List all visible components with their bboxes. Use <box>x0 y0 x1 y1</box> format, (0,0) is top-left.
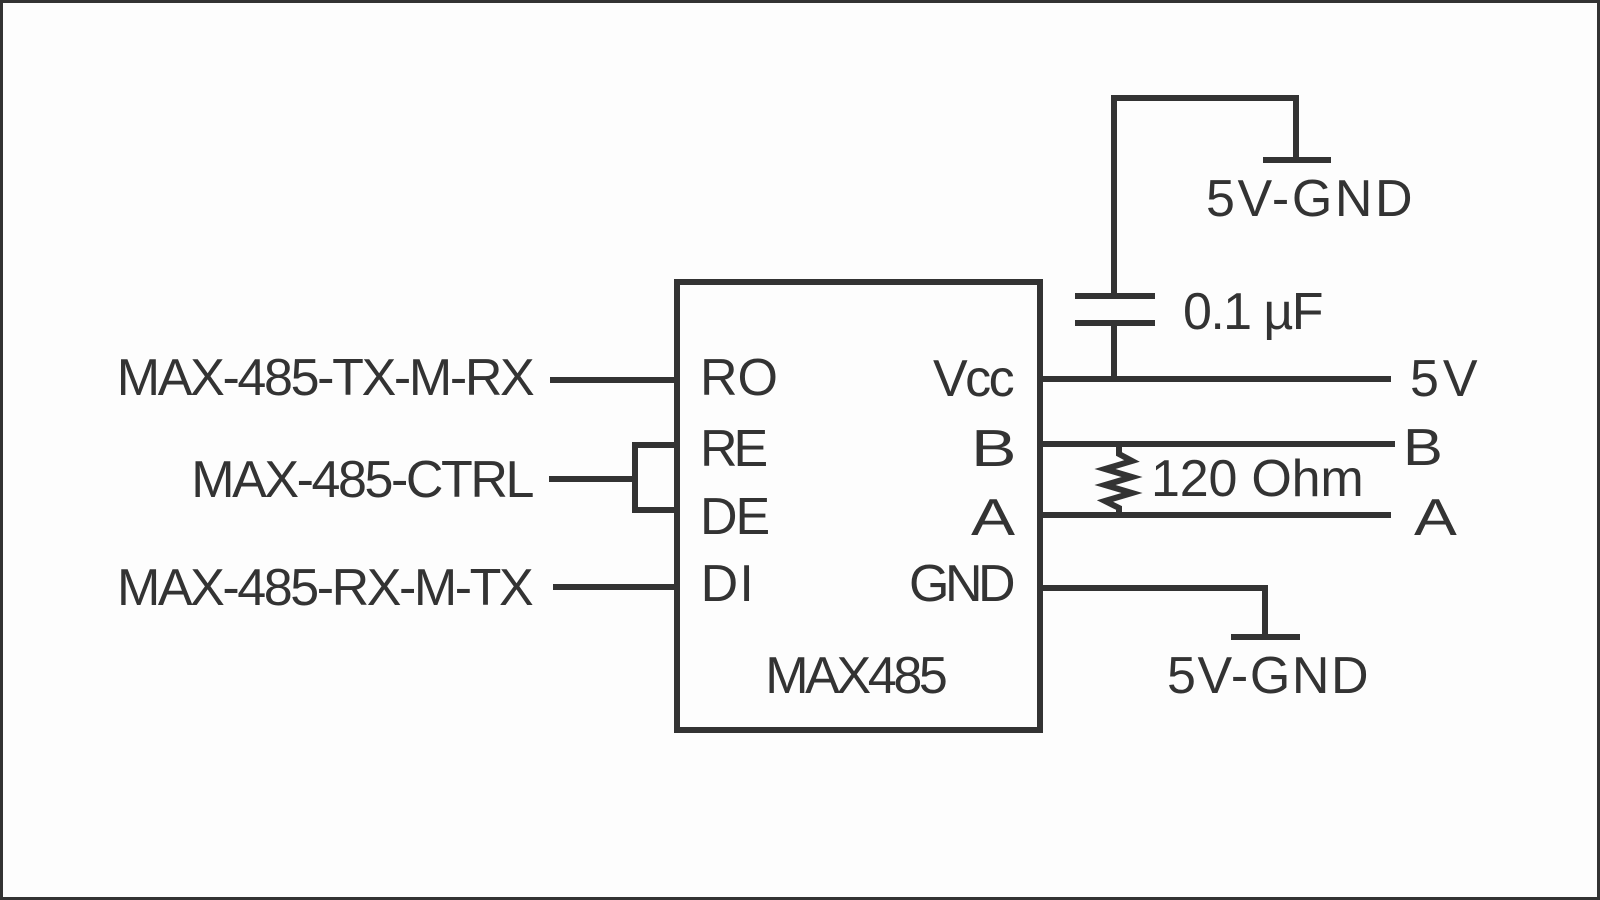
wire RO pin to MAX-485-TX-M-RX <box>550 377 677 383</box>
pin label RO <box>700 352 778 404</box>
ground symbol upper 5V-GND bar <box>1263 157 1331 163</box>
pin label RE <box>700 423 764 475</box>
value label 120 Ohm <box>1151 453 1364 505</box>
pin label GND <box>909 558 1011 610</box>
wire MAX-485-CTRL <box>549 476 638 482</box>
wire A pin to A terminal <box>1040 512 1391 518</box>
wire B pin to B terminal <box>1040 441 1395 447</box>
ground symbol lower 5V-GND bar <box>1231 634 1300 640</box>
capacitor C1 top plate <box>1075 293 1155 299</box>
pin label Vcc <box>933 353 1012 405</box>
net label B <box>1403 422 1443 474</box>
pin label B <box>971 423 1017 475</box>
resistor R1 120 Ohm termination zigzag <box>1105 444 1132 515</box>
wire capacitor lower lead <box>1111 323 1117 379</box>
pin label A <box>971 492 1015 544</box>
pin label DI <box>701 558 755 610</box>
net label 5V <box>1410 353 1482 405</box>
wire Vcc pin to 5V <box>1040 376 1391 382</box>
wire capacitor upper lead rising, top run, drop to upper ground <box>1114 98 1296 296</box>
value label 0.1 uF <box>1183 286 1322 338</box>
pin label DE <box>700 491 768 543</box>
net label A <box>1414 492 1457 544</box>
node label MAX-485-CTRL <box>191 454 532 506</box>
capacitor C1 bottom plate <box>1075 320 1155 326</box>
net label 5V-GND lower <box>1167 650 1370 702</box>
part label MAX485 <box>765 650 944 702</box>
net label 5V-GND upper <box>1206 173 1415 225</box>
node label MAX-485-TX-M-RX <box>117 352 533 404</box>
wire bracket joining RE and DE pins <box>635 445 677 510</box>
IC U1 MAX485 body <box>677 282 1040 730</box>
wire GND pin run and drop to lower ground <box>1040 588 1265 637</box>
wire DI pin to MAX-485-RX-M-TX <box>553 584 677 590</box>
node label MAX-485-RX-M-TX <box>117 562 531 614</box>
